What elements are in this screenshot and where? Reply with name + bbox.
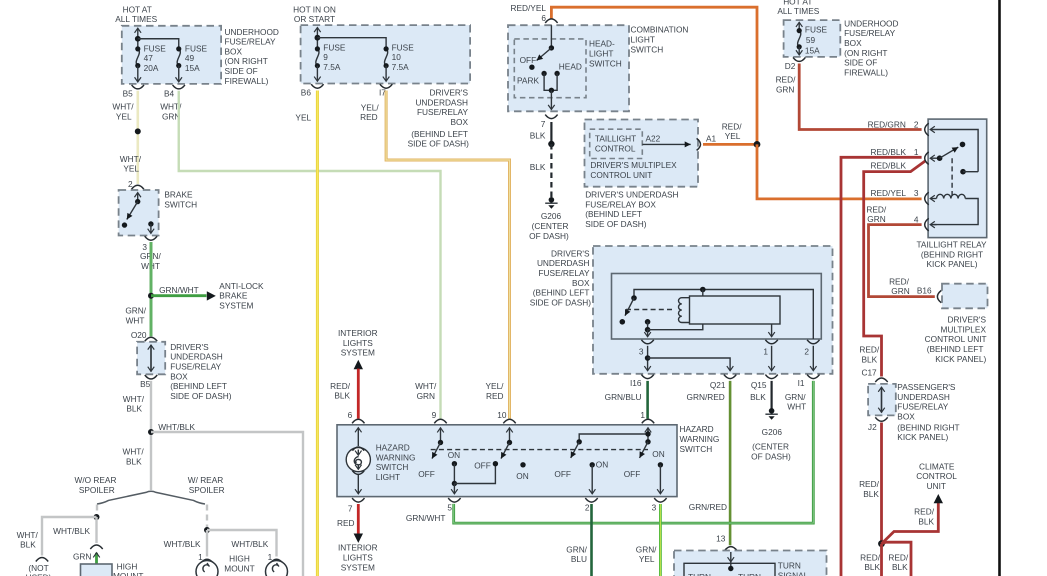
wire label WHT/GRN (pin 9)	[415, 381, 437, 401]
node: splice on WHT/YEL	[135, 128, 141, 134]
svg-text:ON: ON	[652, 449, 664, 459]
relay pin 1 arrow	[930, 157, 939, 159]
svg-text:OFF: OFF	[554, 469, 571, 479]
label G206 (CENTER OF DASH)	[529, 211, 569, 241]
svg-text:15A: 15A	[805, 46, 820, 56]
wire GRN/WHT branch to anti-lock brake system	[151, 294, 207, 297]
pass-through internal arrow up (C17)	[881, 387, 883, 412]
svg-text:A22: A22	[646, 133, 661, 143]
feed arrow into fuse 59 box	[798, 22, 800, 30]
wire: feed to fuse 49	[138, 39, 179, 49]
svg-text:LIGHT: LIGHT	[631, 35, 655, 45]
svg-text:SWITCH: SWITCH	[164, 199, 197, 209]
hazard switch 1 blade	[432, 443, 441, 459]
connector hazard pin 2	[585, 498, 597, 502]
off-page arrow to interior lights system	[354, 534, 363, 543]
svg-text:OFF: OFF	[474, 460, 491, 470]
svg-text:Q21: Q21	[710, 380, 726, 390]
svg-text:TAILLIGHT: TAILLIGHT	[595, 133, 636, 143]
node: w/ spoiler junction	[204, 527, 210, 533]
label W/ REAR SPOILER	[188, 475, 225, 495]
svg-text:9: 9	[323, 52, 328, 62]
wire WHT/BLK to left high mount lamp	[206, 530, 208, 557]
off-page arrow from interior lights system	[354, 360, 363, 370]
connector high mount (GRN)	[90, 545, 102, 549]
contact ON (switch 1)	[452, 461, 457, 466]
svg-text:2: 2	[585, 503, 590, 513]
svg-text:UNDERDASH: UNDERDASH	[415, 97, 468, 107]
connector C17	[875, 378, 887, 382]
relay upper contact	[960, 169, 966, 175]
svg-text:FUSE: FUSE	[392, 42, 415, 52]
fuse 9 value label	[323, 42, 346, 72]
hazard switch 1 pivot	[438, 440, 443, 445]
svg-text:RED/: RED/	[859, 479, 880, 489]
relay linkage dashed (center relay)	[626, 309, 672, 311]
svg-text:(CENTER: (CENTER	[752, 442, 789, 452]
wire RED/GRN pin 4 to B16	[869, 225, 935, 297]
label driver's underdash fuse/relay box (center)	[530, 248, 592, 307]
label COMBINATION LIGHT SWITCH	[631, 25, 689, 55]
wire RED/YEL combination switch to junction	[551, 7, 757, 144]
wire BLK splice to ground G206 (dashed)	[550, 144, 552, 198]
node: relay coil feed junction	[700, 287, 706, 293]
wire label YEL/RED (pin 10)	[486, 381, 505, 401]
wire label GRN/WHT (below ABS junction)	[125, 306, 146, 326]
connector J2	[875, 417, 887, 421]
fuse 49 value label	[185, 43, 208, 73]
wire RED/BLK junction to climate control unit	[882, 502, 939, 544]
wire branch to Q21 exit	[648, 358, 731, 371]
label DRIVER'S MULTIPLEX CONTROL UNIT	[590, 160, 677, 180]
fuse 9	[315, 46, 320, 68]
svg-text:RED/: RED/	[866, 204, 887, 214]
wire stub w/o rear spoiler (dashed)	[96, 505, 98, 516]
hazard switch 2 pole	[509, 428, 511, 443]
connector relay pin 2	[807, 340, 819, 344]
connector taillight relay pin 3	[925, 192, 929, 205]
svg-text:INTERIOR: INTERIOR	[338, 543, 378, 553]
wire GRN/BLU I16 to hazard switch pin 1	[646, 381, 649, 419]
svg-text:WHT/: WHT/	[120, 154, 142, 164]
svg-text:YEL: YEL	[725, 131, 741, 141]
svg-text:BRAKE: BRAKE	[164, 190, 193, 200]
svg-text:GRN: GRN	[891, 286, 909, 296]
svg-text:BLK: BLK	[530, 131, 546, 141]
fuse 47 value label	[144, 43, 167, 73]
wire WHT/BLK from B5 down to spoiler split	[150, 381, 152, 490]
label underhood box (left)	[225, 27, 279, 86]
hazard switch 1 pole	[440, 428, 442, 443]
fuse 59 output arrow	[798, 47, 800, 55]
connector hazard pin 1	[642, 419, 654, 423]
brake switch blade	[127, 202, 138, 220]
svg-text:RED/: RED/	[776, 75, 797, 85]
svg-text:5: 5	[447, 503, 452, 513]
svg-text:WHT/BLK: WHT/BLK	[231, 539, 268, 549]
connector O20	[145, 337, 157, 341]
relay switch pivot (center relay)	[631, 295, 637, 301]
svg-text:YEL: YEL	[295, 112, 311, 122]
label TAILLIGHT RELAY (BEHIND RIGHT KICK PANEL)	[916, 240, 987, 270]
svg-text:SWITCH: SWITCH	[680, 444, 713, 454]
wire: feed to fuse 10	[317, 38, 386, 49]
wire WHT/BLK branch to right high mount lamp	[207, 530, 277, 557]
label INTERIOR LIGHTS SYSTEM (top)	[338, 328, 378, 358]
node: WHT/BLK junction	[148, 429, 154, 435]
svg-text:GRN/RED: GRN/RED	[689, 502, 727, 512]
connector B5 (underdash)	[145, 375, 157, 379]
connector left high mount lamp	[201, 559, 214, 563]
svg-text:INTERIOR: INTERIOR	[338, 328, 378, 338]
svg-text:SIDE OF DASH): SIDE OF DASH)	[408, 139, 470, 149]
wire label GRN/BLU (pin 2)	[566, 544, 587, 564]
wire RED/BLK pin 1 down left side of page	[841, 157, 922, 576]
svg-text:9: 9	[432, 410, 437, 420]
svg-text:B4: B4	[164, 88, 175, 98]
wire GRN/BLU hazard pin 2 down page	[590, 504, 593, 576]
connector I7	[380, 84, 392, 88]
relay fixed contact (center relay)	[645, 319, 651, 325]
contact PARK	[541, 71, 546, 76]
wire label WHT/BLK (two-line, upper left wire)	[123, 394, 145, 414]
svg-text:(ON RIGHT: (ON RIGHT	[225, 56, 268, 66]
wire pin 1 to switch pivots	[579, 429, 648, 442]
page border	[998, 0, 1001, 576]
svg-text:RED/: RED/	[859, 345, 880, 355]
wire WHT/BLK branch right and down page	[151, 432, 303, 576]
svg-text:GRN/: GRN/	[125, 306, 146, 316]
relay switch pivot	[937, 155, 943, 161]
svg-text:10: 10	[392, 52, 402, 62]
svg-text:1: 1	[914, 147, 919, 157]
wire RED/BLK junction to bottom (left)	[880, 544, 883, 576]
svg-text:RED/: RED/	[722, 121, 743, 131]
relay contact stub	[963, 171, 978, 173]
svg-text:BLK: BLK	[864, 562, 880, 572]
connector A1	[697, 138, 701, 150]
connector hazard pin 6	[352, 419, 364, 423]
svg-text:FUSE: FUSE	[185, 43, 208, 53]
ground G206 (Q15)	[765, 408, 777, 420]
contact ON (switch 4)	[658, 462, 663, 467]
svg-text:HIGH: HIGH	[229, 553, 250, 563]
svg-text:BOX: BOX	[897, 412, 915, 422]
relay blade contact	[960, 142, 966, 148]
node: pin 3 branch junction	[645, 355, 651, 361]
wire pin 3 to I16 exit	[647, 346, 649, 371]
svg-text:OF DASH): OF DASH)	[529, 231, 569, 241]
svg-text:BLK: BLK	[750, 392, 766, 402]
connector pin 6 combination switch	[545, 19, 557, 23]
svg-text:LIGHTS: LIGHTS	[343, 553, 373, 563]
relay coil return to pin 3 node	[648, 324, 703, 330]
wire label YEL/RED (at I7)	[360, 102, 379, 122]
wire label RED/BLK (pin 6)	[330, 381, 351, 401]
svg-text:FUSE: FUSE	[805, 25, 828, 35]
svg-text:UNIT: UNIT	[927, 481, 946, 491]
relay switch blade	[940, 147, 959, 158]
svg-text:KICK PANEL): KICK PANEL)	[926, 259, 977, 269]
svg-text:B6: B6	[301, 88, 312, 98]
svg-text:HAZARD: HAZARD	[376, 443, 410, 453]
svg-text:RED: RED	[360, 112, 378, 122]
svg-text:ALL TIMES: ALL TIMES	[777, 6, 819, 16]
svg-text:SWITCH: SWITCH	[589, 58, 622, 68]
wire RED/GRN D2 to taillight relay pin 2	[799, 64, 921, 130]
svg-text:Q15: Q15	[751, 380, 767, 390]
svg-text:(BEHIND LEFT: (BEHIND LEFT	[533, 288, 590, 298]
label W/O REAR SPOILER	[75, 475, 117, 495]
svg-text:7.5A: 7.5A	[323, 62, 341, 72]
svg-text:LIGHT: LIGHT	[376, 472, 400, 482]
hazard switch 3 pivot	[577, 439, 582, 444]
svg-text:6: 6	[348, 410, 353, 420]
svg-text:DRIVER'S: DRIVER'S	[430, 88, 469, 98]
svg-text:SPOILER: SPOILER	[189, 485, 225, 495]
label G206 (CENTER OF DASH) right	[751, 427, 791, 461]
node: w/o spoiler junction	[94, 514, 100, 520]
label underhood box (right)	[844, 18, 898, 77]
svg-text:TURN: TURN	[778, 561, 801, 571]
label HOT AT ALL TIMES (right)	[777, 0, 819, 16]
svg-text:CONTROL UNIT: CONTROL UNIT	[925, 334, 987, 344]
svg-text:SWITCH: SWITCH	[376, 462, 409, 472]
wire GRN/WHT brake switch to O20	[150, 242, 153, 336]
svg-text:GRN: GRN	[417, 391, 435, 401]
svg-text:RED/: RED/	[889, 276, 910, 286]
wire pin 1 to Q15 exit	[771, 346, 773, 371]
svg-text:GRN/WHT: GRN/WHT	[159, 285, 199, 295]
svg-text:PASSENGER'S: PASSENGER'S	[897, 382, 956, 392]
svg-text:WHT/BLK: WHT/BLK	[53, 526, 90, 536]
svg-text:BLK: BLK	[918, 517, 934, 527]
connector B4	[173, 85, 185, 89]
svg-text:YEL: YEL	[123, 164, 139, 174]
svg-text:RED/YEL: RED/YEL	[871, 188, 907, 198]
wire YEL/RED I7 to hazard switch pin 10	[386, 91, 509, 419]
connector B6	[311, 84, 323, 88]
svg-text:ALL TIMES: ALL TIMES	[115, 14, 157, 24]
label BRAKE SWITCH	[164, 190, 197, 210]
svg-text:SYSTEM: SYSTEM	[341, 562, 375, 572]
wire label RED/BLK (bottom right)	[888, 552, 909, 572]
svg-text:59: 59	[806, 35, 816, 45]
high mount lamp right (bulb)	[266, 561, 288, 576]
svg-text:(BEHIND LEFT: (BEHIND LEFT	[585, 209, 642, 219]
wire WHT/BLK to high mount stop light connector	[95, 517, 97, 543]
svg-text:RED/BLK: RED/BLK	[871, 161, 907, 171]
connector B16	[937, 290, 941, 302]
driver's underdash fuse/relay box pass-through (O20-B5)	[137, 342, 165, 375]
svg-text:WHT/: WHT/	[123, 394, 145, 404]
svg-text:RED/: RED/	[330, 381, 351, 391]
svg-text:B16: B16	[917, 285, 932, 295]
svg-text:2: 2	[914, 119, 919, 129]
node: pin 5 node	[452, 481, 457, 486]
svg-text:B5: B5	[123, 88, 134, 98]
svg-text:15A: 15A	[185, 63, 200, 73]
relay linkage (dashed)	[951, 158, 953, 196]
connector taillight relay pin 1	[925, 152, 929, 165]
feed arrow into fuse box 2	[316, 28, 318, 49]
svg-text:SPOILER: SPOILER	[79, 485, 115, 495]
contact OFF (headlight)	[529, 65, 534, 70]
wire label GRN/WHT (I1)	[785, 392, 806, 412]
wire RED/YEL junction to taillight relay pin 3	[757, 144, 922, 199]
combination switch output arrow	[550, 90, 552, 109]
svg-text:DRIVER'S: DRIVER'S	[551, 248, 590, 258]
relay feed wire (pivot to pin 2 side)	[634, 290, 813, 340]
turn signal inner module box	[684, 563, 775, 576]
contact OFF (switch 2)	[493, 461, 498, 466]
combination light switch box (outer dashed)	[508, 25, 629, 111]
svg-text:FUSE/RELAY: FUSE/RELAY	[170, 362, 221, 372]
hazard switch 2 pivot	[507, 440, 512, 445]
feed arrow into fuse box	[137, 28, 139, 49]
wire RED/BLK interior lights to hazard pin 6	[357, 369, 360, 419]
svg-text:1: 1	[640, 410, 645, 420]
wire RED/BLK J2 to junction	[880, 423, 883, 544]
driver's underdash fuse/relay box (center, dashed outer)	[593, 246, 833, 374]
svg-text:FUSE/RELAY: FUSE/RELAY	[844, 28, 895, 38]
svg-text:BLK: BLK	[126, 456, 142, 466]
connector relay pin 1	[765, 340, 777, 344]
svg-text:UNDERDASH: UNDERDASH	[537, 258, 590, 268]
svg-text:MOUNT: MOUNT	[113, 571, 143, 576]
svg-text:3: 3	[914, 188, 919, 198]
svg-text:BLK: BLK	[334, 391, 350, 401]
node: fuse 9/10 feed junction	[315, 35, 321, 41]
wire label WHT/BLK (below junction)	[122, 447, 144, 467]
passenger's underdash fuse/relay box pass-through (C17-J2)	[868, 384, 896, 416]
svg-text:4: 4	[914, 215, 919, 225]
svg-text:2: 2	[128, 179, 133, 189]
wire label GRN/YEL (pin 3)	[636, 544, 657, 564]
wire switch2 OFF to pin 5 node	[454, 464, 495, 484]
wire RED hazard pin 7 to interior lights	[357, 504, 360, 534]
hazard warning switch light (bulb)	[346, 447, 370, 474]
svg-text:WHT/: WHT/	[122, 447, 144, 457]
svg-text:WARNING: WARNING	[680, 434, 720, 444]
node: RED/BLK junction (bottom right)	[878, 540, 885, 547]
svg-text:BOX: BOX	[572, 278, 590, 288]
pass-through internal wire with arrows	[150, 345, 152, 372]
headlight switch blade (to OFF)	[537, 48, 552, 61]
wire WHT/GRN B4 to hazard switch pin 9	[179, 91, 441, 419]
svg-text:FUSE/RELAY: FUSE/RELAY	[538, 268, 589, 278]
headlight switch box (inner dashed)	[514, 39, 586, 98]
fuse 59 value label	[805, 25, 828, 56]
hazard pin 5 exit arrow	[453, 484, 455, 494]
svg-text:ON: ON	[448, 450, 460, 460]
svg-text:7: 7	[541, 119, 546, 129]
node: switch 3/4 feed junction	[645, 431, 650, 436]
wire PARK/HEAD common	[544, 74, 557, 91]
wire RED/BLK pin 1 to C17	[864, 161, 926, 377]
wire RED/YEL A1 to junction	[703, 143, 757, 146]
svg-text:J2: J2	[868, 422, 877, 432]
svg-text:B5: B5	[140, 379, 151, 389]
relay pin 2 internal wire to upper contact	[930, 130, 978, 172]
svg-text:HEAD: HEAD	[559, 62, 582, 72]
svg-text:(BEHIND RIGHT: (BEHIND RIGHT	[897, 422, 959, 432]
high mount stop light box (w/o spoiler)	[81, 564, 113, 576]
wire stub w/ rear spoiler (dashed)	[206, 505, 208, 528]
svg-text:YEL/: YEL/	[361, 102, 380, 112]
svg-text:G206: G206	[762, 427, 783, 437]
driver's multiplex control unit box (dashed, right)	[942, 284, 988, 309]
svg-text:GRN/WHT: GRN/WHT	[406, 513, 446, 523]
svg-text:USED): USED)	[26, 573, 52, 576]
off-page arrow to anti-lock brake system	[207, 291, 216, 300]
fuse 47	[135, 46, 140, 68]
connector pin 7 combination switch	[545, 115, 557, 119]
wire label RED/GRN (pin 4)	[866, 204, 887, 224]
svg-text:FUSE/RELAY: FUSE/RELAY	[897, 402, 948, 412]
wire label RED/BLK (bottom left)	[860, 552, 881, 572]
svg-text:FIREWALL): FIREWALL)	[844, 67, 888, 77]
svg-text:FUSE/RELAY: FUSE/RELAY	[417, 107, 468, 117]
svg-text:HEAD-: HEAD-	[589, 39, 615, 49]
svg-text:47: 47	[144, 53, 154, 63]
connector taillight relay pin 2	[925, 123, 929, 136]
svg-text:(BEHIND LEFT: (BEHIND LEFT	[170, 381, 227, 391]
wire switch4 ON to pin 3 exit	[659, 465, 661, 494]
fuse 59	[797, 28, 802, 49]
label TAILLIGHT CONTROL	[595, 133, 636, 153]
relay pin 1 exit wire	[771, 324, 773, 337]
wire BLK combination switch to splice	[550, 122, 552, 144]
svg-text:MULTIPLEX: MULTIPLEX	[941, 324, 987, 334]
svg-text:HIGH: HIGH	[117, 561, 138, 571]
label HAZARD WARNING SWITCH (right of box)	[680, 424, 720, 454]
label HOT IN ON OR START	[293, 5, 336, 24]
svg-text:BLK: BLK	[126, 404, 142, 414]
connector hazard pin 10	[503, 419, 515, 423]
svg-text:A1: A1	[706, 133, 717, 143]
wire GRN/RED Q21 to turn signal pin 13	[729, 381, 732, 545]
node: GRN/WHT junction to ABS	[148, 293, 154, 299]
wire GRN into high mount stop light	[95, 553, 98, 564]
svg-text:WHT/BLK: WHT/BLK	[158, 422, 195, 432]
hazard lamp feed arrow (top)	[357, 428, 359, 446]
svg-text:RED/: RED/	[888, 552, 909, 562]
connector right high mount lamp	[270, 559, 283, 563]
label driver's underdash fuse/relay box 2	[408, 88, 470, 149]
connector I16	[641, 375, 653, 379]
pass-through internal arrow down	[150, 345, 152, 371]
svg-text:GRN/: GRN/	[636, 544, 657, 554]
label HEAD-LIGHT SWITCH	[589, 39, 622, 69]
label TURN SIGNAL	[778, 561, 809, 576]
svg-text:FUSE/RELAY: FUSE/RELAY	[225, 37, 276, 47]
svg-text:C17: C17	[861, 368, 877, 378]
connector (not used)	[36, 558, 48, 562]
svg-text:OFF: OFF	[418, 469, 435, 479]
label CLIMATE CONTROL UNIT	[916, 461, 957, 491]
wire label WHT/YEL (upper)	[112, 102, 134, 122]
svg-text:YEL/: YEL/	[486, 381, 505, 391]
svg-text:CONTROL UNIT: CONTROL UNIT	[590, 170, 652, 180]
fuse 47 output arrow	[137, 66, 139, 82]
relay module box (inner solid)	[612, 274, 822, 340]
hazard switch 4 blade	[640, 442, 649, 458]
svg-text:DRIVER'S UNDERDASH: DRIVER'S UNDERDASH	[585, 190, 678, 200]
svg-text:MOUNT: MOUNT	[224, 563, 254, 573]
svg-text:7.5A: 7.5A	[392, 62, 410, 72]
svg-text:YEL: YEL	[116, 111, 132, 121]
